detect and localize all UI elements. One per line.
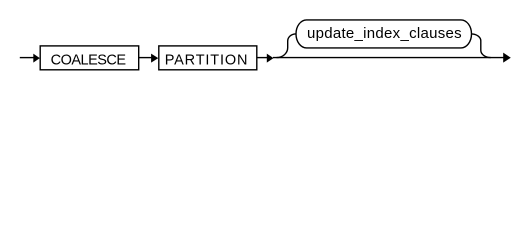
- arrowhead after PARTITION: [267, 54, 274, 63]
- box PARTITION: [159, 46, 257, 70]
- end arrowhead: [503, 53, 511, 63]
- railroad syntax diagram: COALESCE PARTITION [update_index_clauses]: [0, 0, 512, 80]
- wire: exit of update_index_clauses down to main line: [471, 34, 491, 58]
- svg-text:PARTITION: PARTITION: [165, 53, 249, 69]
- wire: main bypass line to exit: [273, 57, 504, 59]
- wire: branch up into update_index_clauses: [277, 34, 297, 58]
- box COALESCE: [40, 46, 139, 70]
- arrowhead into PARTITION: [151, 54, 158, 63]
- svg-text:update_index_clauses: update_index_clauses: [307, 25, 462, 42]
- wire: COALESCE to PARTITION: [139, 57, 152, 59]
- arrowhead into COALESCE: [33, 54, 40, 63]
- wire: start segment: [20, 57, 34, 59]
- wire: PARTITION to branch point: [257, 57, 267, 59]
- rounded box update_index_clauses: [296, 20, 472, 48]
- svg-text:COALESCE: COALESCE: [51, 53, 127, 69]
